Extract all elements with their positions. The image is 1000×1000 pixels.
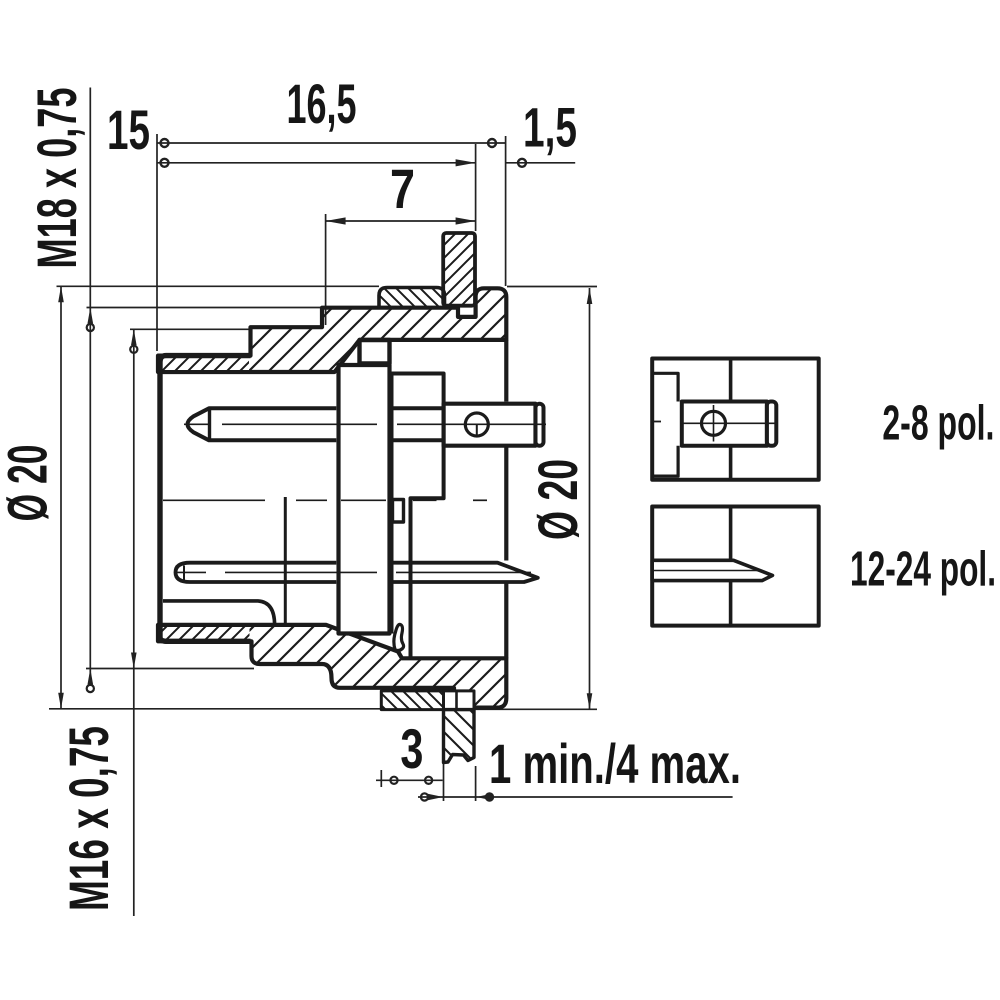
extension line x=505.6 flange rear: [505, 136, 507, 286]
rear face segments: [504, 340, 508, 402]
flange tab lower (hatched, broken off): [444, 710, 475, 763]
extension line gasket left: [380, 770, 382, 787]
box1 mid tick: [652, 421, 661, 423]
box1 left step: [652, 373, 678, 476]
solder blade left part: [176, 563, 337, 582]
pin shoulder: [208, 408, 211, 440]
interior bottom step: [163, 601, 275, 625]
box2 blade contact: [652, 560, 772, 580]
contact retainer: [393, 500, 404, 523]
svg-text:1 min./4 max.: 1 min./4 max.: [489, 732, 741, 795]
dimension 16,5 line: [157, 142, 506, 144]
gasket slot divider: [455, 691, 458, 710]
insulator top tab: [360, 340, 390, 364]
svg-text:2-8 pol.: 2-8 pol.: [882, 396, 994, 450]
pin center line: [184, 423, 208, 425]
dimension 3 line: [376, 779, 443, 781]
blade end center tick: [183, 566, 185, 581]
upper wall dense band left: [160, 358, 249, 371]
insulator insert: [339, 365, 390, 634]
dimension 1,5 line: [506, 162, 576, 164]
blade center line: [176, 571, 206, 573]
solder blade right part with tip: [393, 563, 538, 582]
solder contact body: [444, 404, 536, 446]
extension line M18 top: [87, 307, 328, 309]
detail box 2-8 pol outline: [652, 359, 819, 480]
dimension M16 line: [133, 329, 135, 916]
extension line M18/M16 bottom: [86, 668, 254, 670]
svg-text:1,5: 1,5: [523, 96, 577, 159]
sealing gasket lower (hatched opposite): [381, 691, 443, 710]
extension line front face: [156, 134, 158, 351]
extension line x=475.6 flange front: [475, 144, 477, 231]
dimension M18 line: [89, 88, 91, 685]
svg-text:M16 x 0,75: M16 x 0,75: [57, 726, 120, 911]
box1 contact cap: [767, 402, 776, 446]
extension line x=325.6 for dim 7: [325, 214, 327, 325]
gasket slot white part: [444, 691, 475, 710]
svg-text:12-24 pol.: 12-24 pol.: [850, 543, 996, 597]
extension line D20 left top: [57, 285, 380, 287]
box1 divider: [729, 359, 733, 402]
connector lower wall cross-section (hatched): [158, 625, 506, 708]
box2 blade center line: [652, 570, 760, 572]
extension line D20 left bottom: [49, 708, 381, 710]
svg-text:3: 3: [400, 717, 423, 780]
male pin left part: [188, 408, 337, 440]
detail box 12-24 pol outline: [652, 507, 819, 626]
solder hole: [465, 413, 488, 436]
dimension D20 left: line and arrows: [60, 286, 62, 709]
box1 solder hole: [702, 411, 726, 435]
svg-text:Ø 20: Ø 20: [0, 445, 59, 522]
dimension 15 line: [157, 162, 476, 164]
solder contact cap: [536, 404, 544, 446]
dimension 7 line: [326, 220, 476, 222]
box1 contact center line: [682, 422, 776, 424]
axis center line dash-dot: [163, 499, 265, 501]
flange tab upper (hatched): [443, 233, 475, 306]
dimension 1min/4max line: [418, 796, 733, 798]
extension line M16 top: [130, 328, 252, 330]
svg-text:16,5: 16,5: [287, 72, 357, 135]
extension line flange front bottom: [475, 766, 477, 801]
front face silhouette: [160, 356, 251, 642]
carrier hook notch: [394, 624, 404, 650]
svg-text:M18 x 0,75: M18 x 0,75: [25, 88, 88, 269]
extension line D20 right top: [507, 286, 597, 288]
svg-text:7: 7: [390, 157, 415, 220]
extension line tab left: [443, 762, 445, 801]
svg-text:Ø 20: Ø 20: [526, 459, 589, 540]
extension line D20 right bottom: [461, 708, 597, 710]
connector upper wall cross-section (hatched): [158, 288, 506, 372]
pin right part through carrier: [393, 408, 444, 440]
box2 divider: [729, 507, 733, 561]
contact carrier block: [392, 374, 444, 658]
svg-text:15: 15: [107, 98, 150, 161]
keyway edge line: [284, 497, 287, 624]
box1 solder contact: [682, 402, 767, 446]
lower wall dense band left: [160, 627, 250, 639]
dimension D20 right: line and arrows: [589, 288, 591, 709]
sealing ring upper (hatched opposite): [379, 288, 445, 308]
